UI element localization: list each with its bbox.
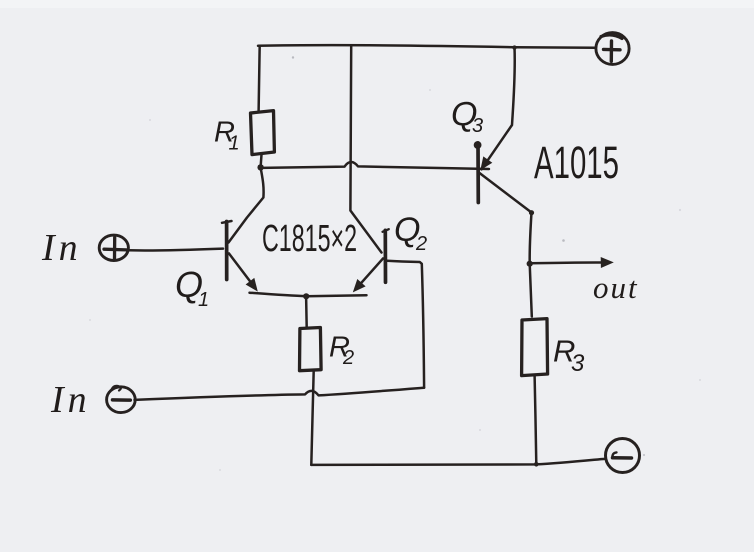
svg-text:1: 1 [198,289,209,311]
svg-text:1: 1 [229,133,240,155]
svg-text:C1815×2: C1815×2 [262,218,357,260]
svg-text:2: 2 [342,347,354,369]
svg-text:In: In [41,227,82,269]
svg-text:In: In [50,379,91,421]
svg-text:3: 3 [571,350,585,377]
svg-text:2: 2 [415,233,427,255]
svg-text:3: 3 [472,115,483,137]
svg-text:A1015: A1015 [534,137,619,188]
svg-text:out: out [593,270,639,305]
